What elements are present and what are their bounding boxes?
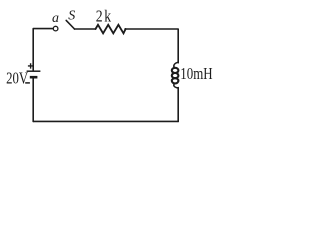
wire right vertical below inductor [177,88,179,122]
switch S blade [66,20,74,29]
node a terminal circle [53,26,58,31]
svg-text:k: k [104,6,111,25]
battery 20V bottom plate (short, thick, -) [30,76,38,79]
wire battery negative to bottom-left corner [32,78,34,121]
svg-text:20V: 20V [6,69,28,88]
battery - sign [25,82,30,84]
svg-text:10mH: 10mH [180,64,212,83]
resistor R 2k zigzag [96,25,126,34]
svg-text:S: S [68,8,75,23]
wire bottom [33,120,178,122]
battery + sign [28,63,33,68]
wire top-left L (node a to battery +) [33,29,53,71]
svg-text:2: 2 [96,6,103,25]
wire switch to resistor [75,28,96,30]
svg-text:a: a [52,11,59,26]
inductor L coil (three loops) [172,62,179,88]
battery 20V top plate (long, +) [27,70,41,72]
wire right vertical above inductor and top-right corner [125,29,178,63]
